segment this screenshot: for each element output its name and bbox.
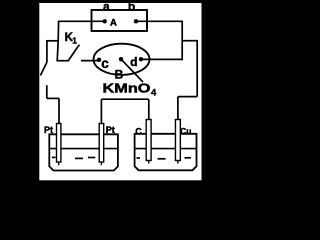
left Pt electrode (left) bbox=[57, 124, 61, 163]
wire connector horizontal bbox=[101, 98, 148, 100]
right cell solution dash 1 bbox=[158, 158, 166, 160]
C electrode bottom stub bbox=[148, 161, 150, 164]
svg-text:Cu: Cu bbox=[180, 126, 191, 136]
wire right vertical (battery b to ellipse wire) bbox=[181, 21, 183, 59]
wire branch vertical bbox=[46, 40, 48, 62]
right liquid line bbox=[135, 148, 197, 150]
battery box A bbox=[92, 10, 148, 31]
white panel bbox=[39, 3, 201, 180]
wire jog right vertical bbox=[196, 40, 198, 97]
wire jog bottom bbox=[178, 96, 197, 98]
svg-text:c: c bbox=[101, 56, 109, 71]
left beaker bbox=[49, 134, 118, 170]
switch blade bbox=[69, 47, 79, 61]
wire battery right bbox=[136, 20, 183, 22]
wire connector right vertical bbox=[148, 99, 150, 119]
wire ellipse right bbox=[141, 58, 183, 60]
wire to Cu electrode bbox=[177, 97, 179, 120]
wire contact to ellipse bbox=[81, 60, 99, 62]
left Pt electrode right bottom stub bbox=[100, 162, 102, 165]
wire battery left bbox=[59, 20, 105, 22]
svg-text:A: A bbox=[110, 18, 117, 29]
wire branch horizontal bbox=[47, 40, 58, 42]
right cell wall tick bbox=[137, 157, 141, 159]
svg-text:C: C bbox=[135, 126, 142, 136]
left cell solution dash 2 bbox=[88, 157, 95, 159]
svg-text:d: d bbox=[130, 55, 137, 69]
terminal dot b bbox=[134, 19, 138, 23]
left Pt electrode left bottom stub bbox=[58, 162, 60, 165]
C electrode bbox=[146, 120, 151, 161]
svg-text:Pt: Pt bbox=[44, 125, 53, 135]
wire lower-left horizontal bbox=[47, 97, 59, 99]
wire jog top bbox=[182, 40, 197, 42]
right cell solution dash 2 bbox=[185, 157, 192, 159]
svg-text:4: 4 bbox=[151, 87, 157, 98]
right beaker bbox=[135, 134, 197, 171]
KMnO4 pointer line bbox=[121, 59, 143, 82]
svg-text:1: 1 bbox=[72, 36, 77, 46]
svg-text:b: b bbox=[128, 0, 135, 13]
terminal dot a bbox=[103, 19, 107, 23]
switch blade tip tick bbox=[78, 45, 80, 47]
electrode dot d bbox=[139, 57, 143, 61]
wire to left Pt electrode bbox=[58, 98, 60, 123]
switch stub bbox=[57, 60, 70, 62]
svg-text:B: B bbox=[115, 67, 124, 81]
Cu electrode bottom stub bbox=[177, 161, 179, 164]
center terminal dot bbox=[119, 57, 123, 61]
left liquid line bbox=[49, 148, 118, 150]
electrode dot c bbox=[97, 58, 101, 62]
wire lower-left vertical bbox=[46, 85, 48, 98]
svg-text:KMnO: KMnO bbox=[103, 81, 151, 95]
vessel B ellipse bbox=[94, 44, 150, 75]
left cell wall tick bbox=[52, 156, 56, 158]
svg-text:Pt: Pt bbox=[106, 125, 115, 135]
wire left vertical bbox=[57, 21, 58, 61]
wire diagonal into border bbox=[40, 62, 47, 75]
Cu electrode bbox=[175, 120, 180, 161]
left cell solution dash 1 bbox=[75, 157, 83, 159]
svg-text:a: a bbox=[103, 0, 110, 13]
wire connector left cell to right cell: left vertical bbox=[100, 99, 102, 123]
left Pt electrode (right) bbox=[99, 124, 104, 163]
